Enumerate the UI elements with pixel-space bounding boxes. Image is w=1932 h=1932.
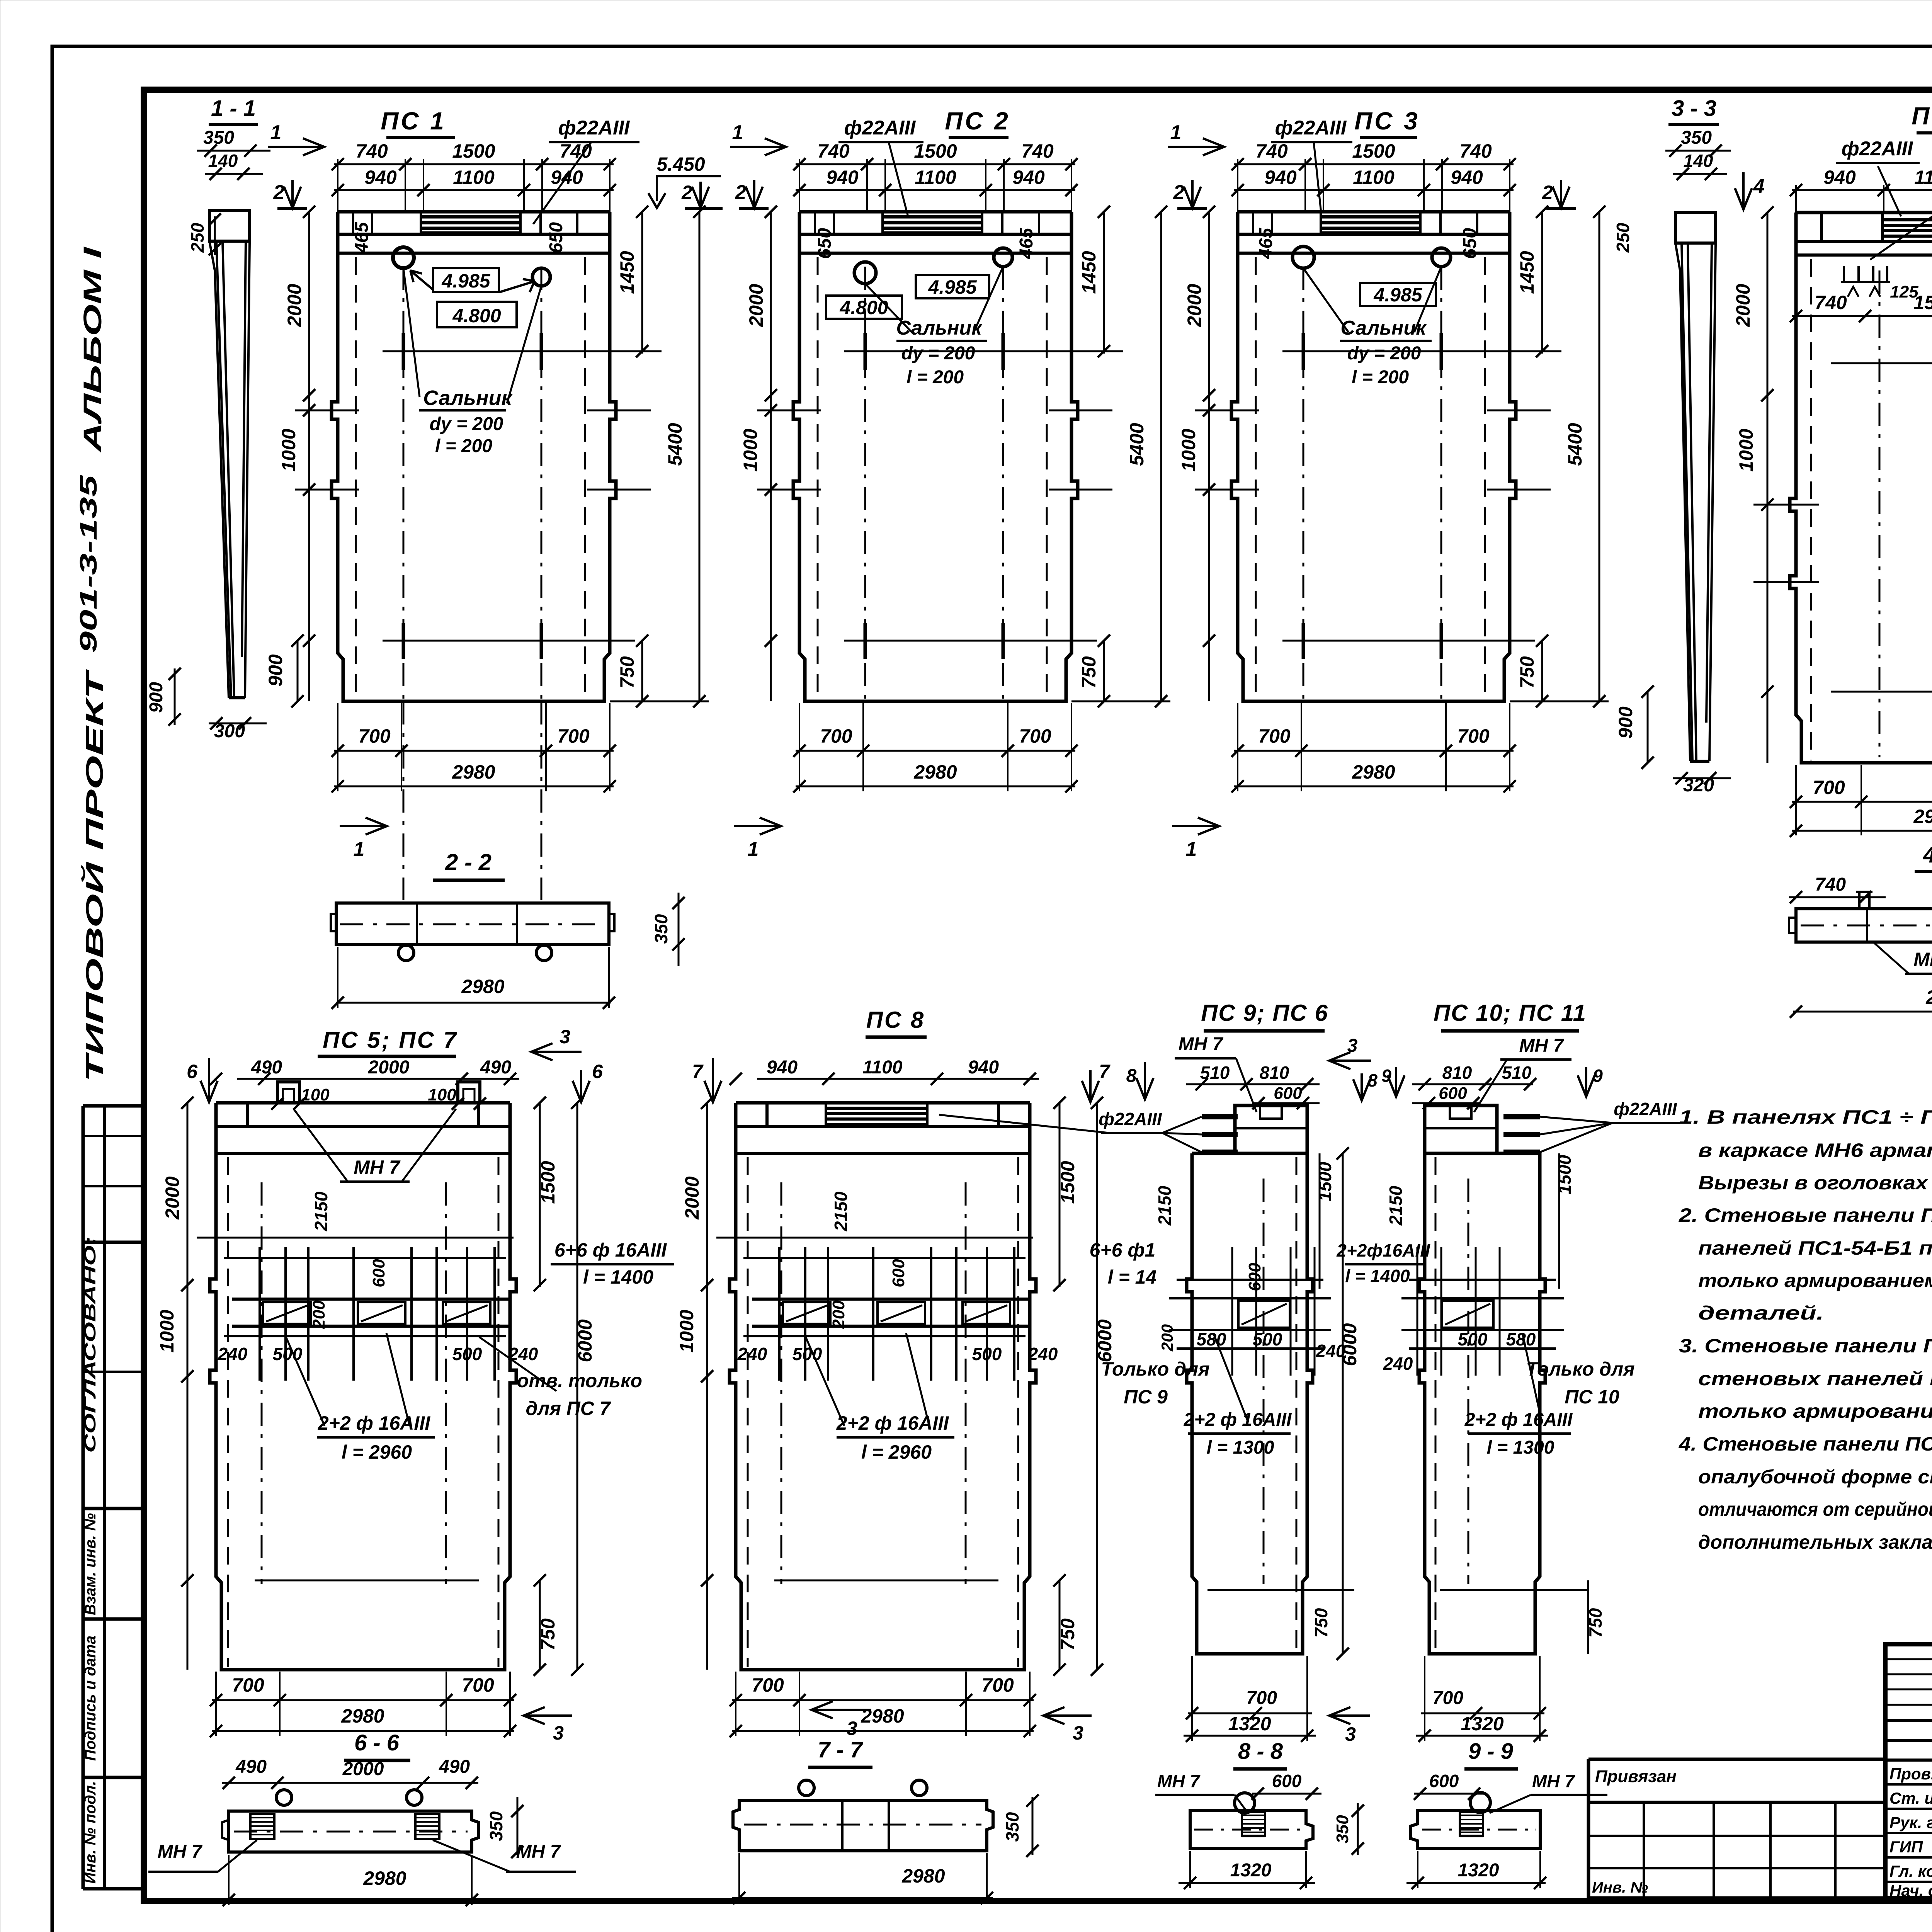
svg-text:580: 580 (1506, 1329, 1536, 1349)
svg-text:отв. только: отв. только (517, 1370, 642, 1391)
svg-text:l = 200: l = 200 (906, 367, 964, 388)
svg-text:1100: 1100 (453, 167, 495, 188)
svg-text:деталей.: деталей. (1698, 1302, 1824, 1324)
svg-text:ПС 9; ПС 6: ПС 9; ПС 6 (1201, 1000, 1328, 1026)
svg-text:700: 700 (1019, 725, 1051, 747)
svg-text:2+2 ф 16АIII: 2+2 ф 16АIII (1184, 1410, 1292, 1430)
svg-text:350: 350 (1681, 128, 1712, 148)
svg-text:740: 740 (1815, 874, 1846, 895)
svg-text:6000: 6000 (1094, 1319, 1116, 1362)
svg-text:2150: 2150 (1155, 1185, 1175, 1226)
svg-text:2000: 2000 (1184, 284, 1205, 327)
svg-text:5400: 5400 (1126, 423, 1148, 466)
svg-text:ПС 5; ПС 7: ПС 5; ПС 7 (323, 1027, 458, 1053)
svg-text:ПС 10: ПС 10 (1565, 1386, 1619, 1408)
svg-text:1500: 1500 (1913, 292, 1932, 313)
svg-text:500: 500 (1458, 1329, 1488, 1349)
svg-text:Сальник: Сальник (423, 386, 513, 410)
svg-text:3: 3 (847, 1718, 857, 1739)
svg-text:отличаются от серийной только: отличаются от серийной только армировани… (1698, 1498, 1932, 1520)
svg-text:940: 940 (364, 167, 397, 188)
svg-text:1500: 1500 (537, 1161, 559, 1204)
svg-text:Пров.: Пров. (1889, 1765, 1932, 1783)
svg-text:2: 2 (273, 181, 285, 204)
svg-text:Вырезы в оголовках устраиваютс: Вырезы в оголовках устраиваются установк… (1698, 1172, 1932, 1194)
svg-text:740: 740 (1255, 140, 1288, 162)
svg-text:ф22АIII: ф22АIII (1614, 1099, 1677, 1119)
svg-text:940: 940 (1012, 167, 1045, 188)
svg-text:Сальник: Сальник (896, 317, 983, 339)
svg-text:140: 140 (208, 151, 238, 171)
svg-text:240: 240 (1383, 1354, 1413, 1374)
svg-text:8: 8 (1367, 1070, 1378, 1090)
svg-text:500: 500 (1253, 1329, 1282, 1349)
svg-text:ф22АIII: ф22АIII (1275, 117, 1347, 139)
svg-text:750: 750 (1057, 1618, 1078, 1651)
svg-text:только армированием оголовка,: только армированием оголовка, наличием д… (1698, 1400, 1932, 1422)
svg-text:600: 600 (1272, 1771, 1302, 1791)
svg-text:1000: 1000 (1735, 429, 1757, 471)
svg-text:4: 4 (1753, 175, 1765, 198)
svg-text:510: 510 (1200, 1063, 1230, 1083)
svg-text:810: 810 (1442, 1063, 1472, 1083)
svg-text:510: 510 (1502, 1063, 1532, 1083)
svg-text:МН 7: МН 7 (158, 1842, 203, 1862)
svg-text:490: 490 (480, 1057, 511, 1078)
svg-text:МН 7: МН 7 (354, 1156, 401, 1178)
svg-text:500: 500 (793, 1344, 822, 1364)
svg-text:l = 200: l = 200 (1352, 367, 1409, 388)
svg-text:740: 740 (560, 140, 592, 162)
svg-text:2+2 ф 16АIII: 2+2 ф 16АIII (836, 1412, 949, 1434)
svg-text:l = 1300: l = 1300 (1207, 1437, 1274, 1458)
svg-text:ф22АIII: ф22АIII (844, 117, 916, 139)
svg-text:600: 600 (1245, 1263, 1264, 1291)
svg-text:2000: 2000 (1732, 284, 1754, 327)
svg-text:900: 900 (146, 682, 167, 713)
svg-text:9 - 9: 9 - 9 (1468, 1739, 1513, 1764)
svg-text:l = 1300: l = 1300 (1487, 1437, 1554, 1458)
svg-text:490: 490 (439, 1757, 470, 1777)
svg-text:4. Стеновые панели ПС 6, ПС 9,: 4. Стеновые панели ПС 6, ПС 9, ПС 10, ПС… (1679, 1433, 1932, 1455)
svg-text:8 - 8: 8 - 8 (1238, 1739, 1283, 1764)
svg-text:9: 9 (1593, 1066, 1603, 1086)
svg-text:2. Стеновые панели ПС1, ПС2, П: 2. Стеновые панели ПС1, ПС2, ПС3 изготов… (1679, 1204, 1932, 1226)
svg-text:200: 200 (310, 1300, 328, 1329)
svg-text:3. Стеновые панели ПС 4, ПС5,: 3. Стеновые панели ПС 4, ПС5, ПС 7, ПС 8… (1679, 1335, 1932, 1357)
svg-text:810: 810 (1260, 1063, 1289, 1083)
svg-text:700: 700 (1246, 1688, 1277, 1708)
svg-text:350: 350 (651, 914, 671, 944)
svg-text:6 - 6: 6 - 6 (354, 1730, 400, 1755)
svg-text:240: 240 (1028, 1344, 1058, 1364)
svg-text:ПС 10; ПС 11: ПС 10; ПС 11 (1434, 1000, 1587, 1026)
svg-text:940: 940 (1823, 167, 1856, 188)
svg-text:Подпись и дата: Подпись и дата (82, 1636, 99, 1761)
svg-text:2980: 2980 (1925, 986, 1932, 1008)
svg-text:дополнительных закладных детал: дополнительных закладных деталей и отвер… (1698, 1531, 1932, 1553)
svg-text:600: 600 (369, 1259, 388, 1287)
svg-text:700: 700 (358, 725, 391, 747)
svg-text:панелей ПС1-54-Б1 по серии 3.9: панелей ПС1-54-Б1 по серии 3.900-3 вып. … (1698, 1237, 1932, 1259)
svg-text:490: 490 (251, 1057, 282, 1078)
svg-text:1500: 1500 (452, 140, 495, 162)
svg-text:ф22АIII: ф22АIII (1842, 138, 1913, 160)
svg-text:МН 7: МН 7 (1913, 949, 1932, 970)
svg-text:2150: 2150 (311, 1191, 331, 1231)
svg-text:ПС 1: ПС 1 (381, 107, 446, 135)
svg-text:940: 940 (1264, 167, 1297, 188)
svg-text:только армированием оголовка и: только армированием оголовка и наличием … (1698, 1270, 1932, 1291)
svg-text:500: 500 (452, 1344, 482, 1364)
svg-text:1500: 1500 (1057, 1161, 1078, 1204)
svg-text:650: 650 (815, 228, 835, 259)
svg-text:ГИП: ГИП (1889, 1838, 1923, 1856)
svg-text:500: 500 (273, 1344, 303, 1364)
svg-text:1: 1 (270, 121, 282, 144)
svg-text:940: 940 (1451, 167, 1483, 188)
svg-text:dy = 200: dy = 200 (430, 414, 503, 434)
svg-text:1100: 1100 (915, 167, 956, 188)
svg-text:2150: 2150 (1386, 1185, 1406, 1226)
svg-text:1100: 1100 (1914, 167, 1932, 188)
svg-text:МН 7: МН 7 (1532, 1771, 1575, 1791)
svg-text:2+2ф16АIII: 2+2ф16АIII (1336, 1240, 1430, 1260)
svg-text:4.800: 4.800 (452, 305, 501, 327)
svg-text:6: 6 (592, 1061, 603, 1082)
svg-text:465: 465 (1016, 228, 1037, 259)
svg-text:1320: 1320 (1230, 1860, 1272, 1881)
svg-text:3: 3 (1347, 1036, 1358, 1056)
svg-text:650: 650 (1460, 228, 1480, 259)
svg-text:350: 350 (486, 1811, 506, 1841)
svg-text:700: 700 (820, 725, 852, 747)
svg-text:Рук. гр.: Рук. гр. (1889, 1813, 1932, 1832)
svg-text:1: 1 (1170, 121, 1182, 144)
svg-text:4.985: 4.985 (441, 270, 490, 292)
svg-text:750: 750 (616, 656, 638, 689)
svg-text:250: 250 (187, 223, 207, 253)
svg-text:dy = 200: dy = 200 (1347, 343, 1421, 364)
svg-text:9: 9 (1381, 1066, 1391, 1086)
svg-text:в каркасе МН6 арматурные стерж: в каркасе МН6 арматурные стержни ф 16А I… (1698, 1139, 1932, 1161)
svg-text:600: 600 (1439, 1084, 1467, 1103)
svg-text:350: 350 (1002, 1812, 1022, 1842)
svg-text:1: 1 (748, 838, 759, 861)
svg-text:6000: 6000 (574, 1319, 596, 1362)
svg-text:опалубочной форме стеновой пан: опалубочной форме стеновой панели ПС1- 6… (1698, 1466, 1932, 1488)
svg-text:750: 750 (537, 1618, 559, 1651)
svg-text:Нач. отд: Нач. отд (1889, 1881, 1932, 1900)
svg-text:700: 700 (232, 1674, 264, 1696)
svg-text:1320: 1320 (1228, 1713, 1271, 1735)
svg-text:МН 7: МН 7 (516, 1842, 561, 1862)
svg-text:2980: 2980 (461, 976, 504, 997)
svg-text:2+2 ф 16АIII: 2+2 ф 16АIII (318, 1412, 430, 1434)
svg-text:3 - 3: 3 - 3 (1672, 96, 1716, 121)
svg-text:1450: 1450 (616, 251, 638, 294)
svg-text:2: 2 (735, 181, 747, 204)
svg-text:7: 7 (1099, 1061, 1111, 1082)
svg-text:2980: 2980 (1352, 761, 1395, 783)
svg-text:МН 7: МН 7 (1179, 1034, 1224, 1054)
svg-text:1000: 1000 (278, 429, 299, 471)
svg-text:700: 700 (1457, 725, 1490, 747)
svg-text:2000: 2000 (681, 1176, 703, 1219)
svg-text:Сальник: Сальник (1340, 317, 1427, 339)
svg-text:250: 250 (1613, 223, 1633, 253)
svg-text:2980: 2980 (1913, 806, 1932, 827)
svg-text:2: 2 (1173, 181, 1185, 204)
svg-text:2980: 2980 (452, 761, 495, 783)
svg-text:ПС 4: ПС 4 (1912, 102, 1932, 130)
svg-text:1. В панелях ПС1 ÷ ПС11 в огол: 1. В панелях ПС1 ÷ ПС11 в оголовках в ка… (1679, 1106, 1932, 1128)
svg-text:200: 200 (1158, 1324, 1176, 1352)
svg-text:100: 100 (301, 1085, 330, 1104)
svg-text:8: 8 (1126, 1066, 1137, 1086)
svg-text:стеновых панелей ПС1-60-Б1 по: стеновых панелей ПС1-60-Б1 по серии 3.90… (1698, 1368, 1932, 1389)
svg-text:7 - 7: 7 - 7 (818, 1737, 864, 1762)
svg-text:l = 1400: l = 1400 (1345, 1266, 1410, 1286)
svg-text:740: 740 (1021, 140, 1054, 162)
svg-text:740: 740 (817, 140, 850, 162)
svg-text:940: 940 (767, 1057, 798, 1078)
svg-text:500: 500 (972, 1344, 1002, 1364)
svg-text:1: 1 (1186, 838, 1197, 861)
svg-text:1000: 1000 (740, 429, 761, 471)
svg-text:Гл. констр: Гл. констр (1889, 1862, 1932, 1880)
svg-text:4 - 4: 4 - 4 (1923, 842, 1932, 867)
svg-text:700: 700 (752, 1674, 784, 1696)
svg-text:1500: 1500 (1315, 1162, 1335, 1201)
svg-text:240: 240 (737, 1344, 767, 1364)
svg-text:3: 3 (1345, 1723, 1356, 1745)
svg-text:4.985: 4.985 (1373, 284, 1422, 306)
svg-text:4.985: 4.985 (928, 276, 977, 298)
svg-text:l = 2960: l = 2960 (342, 1441, 412, 1463)
svg-text:750: 750 (1516, 656, 1538, 689)
svg-text:740: 740 (1815, 292, 1847, 313)
svg-text:5400: 5400 (664, 423, 686, 466)
svg-text:600: 600 (1274, 1084, 1302, 1103)
svg-text:7: 7 (692, 1061, 704, 1082)
svg-text:1000: 1000 (676, 1310, 697, 1352)
svg-text:700: 700 (1813, 777, 1845, 798)
svg-text:490: 490 (235, 1757, 267, 1777)
svg-text:600: 600 (889, 1259, 908, 1287)
svg-text:l = 14: l = 14 (1108, 1266, 1157, 1288)
svg-text:465: 465 (1256, 228, 1276, 259)
svg-text:2980: 2980 (341, 1705, 384, 1727)
svg-text:350: 350 (1333, 1815, 1352, 1844)
svg-text:dy = 200: dy = 200 (901, 343, 975, 364)
svg-text:5.450: 5.450 (656, 153, 705, 175)
svg-text:1: 1 (732, 121, 743, 144)
svg-text:750: 750 (1078, 656, 1100, 689)
svg-text:СОГЛАСОВАНО:: СОГЛАСОВАНО: (81, 1236, 99, 1453)
svg-text:1000: 1000 (156, 1310, 178, 1352)
svg-text:580: 580 (1197, 1329, 1226, 1349)
svg-text:1 - 1: 1 - 1 (211, 96, 256, 121)
svg-text:АЛЬБОМ I: АЛЬБОМ I (78, 246, 107, 453)
svg-text:740: 740 (355, 140, 388, 162)
svg-text:Ст. инж.: Ст. инж. (1889, 1789, 1932, 1807)
svg-text:2980: 2980 (861, 1705, 904, 1727)
svg-text:600: 600 (1429, 1771, 1459, 1791)
svg-text:ф22АIII: ф22АIII (558, 117, 630, 139)
svg-text:750: 750 (1311, 1608, 1331, 1638)
svg-text:901-3-135: 901-3-135 (75, 474, 102, 653)
svg-text:1320: 1320 (1461, 1713, 1503, 1735)
svg-text:3: 3 (560, 1026, 570, 1048)
svg-text:l = 200: l = 200 (435, 436, 492, 456)
svg-text:Инв. № подл.: Инв. № подл. (82, 1781, 99, 1884)
svg-text:ПС 3: ПС 3 (1354, 107, 1420, 135)
svg-text:1000: 1000 (1178, 429, 1199, 471)
svg-text:ф22АIII: ф22АIII (1099, 1109, 1162, 1129)
svg-text:Привязан: Привязан (1595, 1767, 1677, 1786)
svg-text:940: 940 (826, 167, 859, 188)
svg-text:Инв. №: Инв. № (1592, 1879, 1648, 1896)
svg-text:900: 900 (265, 654, 286, 687)
svg-text:МН 7: МН 7 (1519, 1036, 1565, 1056)
svg-text:3: 3 (1073, 1722, 1083, 1744)
svg-text:1450: 1450 (1516, 251, 1538, 294)
svg-text:465: 465 (352, 222, 372, 253)
svg-text:3: 3 (553, 1722, 564, 1744)
svg-text:6+6 ф1: 6+6 ф1 (1090, 1239, 1156, 1261)
svg-text:900: 900 (1615, 706, 1636, 739)
svg-text:350: 350 (203, 128, 234, 148)
svg-text:Взам. инв. №: Взам. инв. № (82, 1513, 99, 1615)
svg-text:1450: 1450 (1078, 251, 1100, 294)
svg-text:для ПС 7: для ПС 7 (526, 1398, 611, 1419)
svg-text:2000: 2000 (342, 1759, 384, 1779)
svg-text:2 - 2: 2 - 2 (445, 849, 492, 875)
svg-text:2000: 2000 (162, 1176, 183, 1219)
svg-text:2+2 ф 16АIII: 2+2 ф 16АIII (1464, 1410, 1573, 1430)
svg-text:2000: 2000 (284, 284, 305, 327)
svg-text:Только для: Только для (1526, 1358, 1634, 1380)
svg-text:2: 2 (1542, 182, 1553, 203)
svg-text:1: 1 (354, 838, 365, 861)
svg-text:200: 200 (829, 1300, 848, 1329)
svg-text:l = 2960: l = 2960 (861, 1441, 932, 1463)
svg-text:5400: 5400 (1564, 423, 1586, 466)
svg-text:2000: 2000 (368, 1057, 410, 1078)
svg-text:700: 700 (981, 1674, 1014, 1696)
svg-text:l = 1400: l = 1400 (583, 1266, 653, 1288)
svg-text:2000: 2000 (745, 284, 767, 327)
svg-text:1320: 1320 (1458, 1860, 1499, 1881)
svg-text:240: 240 (218, 1344, 248, 1364)
svg-text:ПС 8: ПС 8 (866, 1007, 925, 1033)
svg-text:1500: 1500 (1554, 1155, 1575, 1194)
svg-text:ПС 9: ПС 9 (1124, 1386, 1168, 1408)
svg-text:1500: 1500 (1352, 140, 1395, 162)
svg-text:ПС 2: ПС 2 (945, 107, 1010, 135)
svg-text:700: 700 (557, 725, 590, 747)
svg-text:1500: 1500 (914, 140, 957, 162)
svg-text:700: 700 (1258, 725, 1291, 747)
svg-text:2150: 2150 (831, 1191, 851, 1231)
svg-text:650: 650 (546, 222, 566, 253)
svg-text:Только для: Только для (1101, 1358, 1209, 1380)
svg-text:ТИПОВОЙ ПРОЕКТ: ТИПОВОЙ ПРОЕКТ (81, 669, 108, 1082)
svg-text:2980: 2980 (901, 1865, 945, 1887)
svg-text:2980: 2980 (363, 1867, 406, 1889)
svg-text:1100: 1100 (1353, 167, 1395, 188)
svg-text:МН 7: МН 7 (1157, 1771, 1201, 1791)
svg-text:700: 700 (462, 1674, 494, 1696)
svg-text:1100: 1100 (862, 1057, 903, 1078)
svg-text:2980: 2980 (913, 761, 957, 783)
svg-text:2: 2 (681, 182, 692, 203)
svg-text:700: 700 (1432, 1688, 1463, 1708)
svg-text:6: 6 (187, 1061, 198, 1082)
svg-text:940: 940 (968, 1057, 999, 1078)
svg-text:740: 740 (1459, 140, 1492, 162)
svg-text:6+6 ф 16АIII: 6+6 ф 16АIII (554, 1239, 667, 1261)
svg-text:100: 100 (428, 1085, 456, 1104)
